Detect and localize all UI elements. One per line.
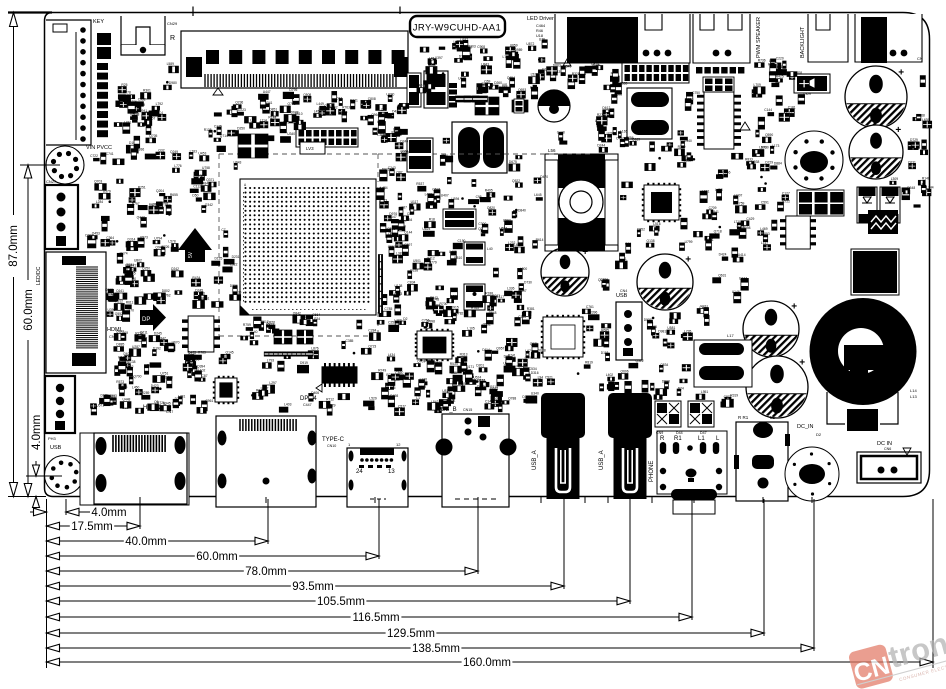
svg-text:R614: R614 (536, 238, 544, 242)
svg-text:L951: L951 (701, 390, 709, 394)
svg-text:L665: L665 (684, 159, 692, 163)
svg-text:R713: R713 (118, 98, 126, 102)
svg-text:L601: L601 (702, 189, 710, 193)
svg-text:CN9: CN9 (656, 431, 663, 435)
svg-text:C300: C300 (478, 222, 486, 226)
svg-text:Q494: Q494 (377, 120, 385, 124)
arrow DP right (140, 304, 166, 331)
svg-text:U799: U799 (685, 240, 693, 244)
svg-text:U698: U698 (614, 92, 622, 96)
svg-text:Q552: Q552 (115, 312, 123, 316)
IC U16 soic16 (697, 92, 741, 149)
IC U12 soic8 (780, 216, 816, 249)
svg-text:Q653: Q653 (518, 88, 526, 92)
svg-text:Q66: Q66 (364, 100, 370, 104)
svg-text:U146: U146 (732, 290, 740, 294)
capacitor E12 (849, 125, 903, 185)
svg-text:D118: D118 (601, 351, 609, 355)
svg-text:R548: R548 (489, 311, 497, 315)
svg-text:Q961: Q961 (400, 149, 408, 153)
svg-text:D140: D140 (250, 330, 258, 334)
connector CN30 backlight (855, 14, 923, 63)
svg-text:L13: L13 (910, 394, 917, 399)
svg-text:R611: R611 (126, 301, 134, 305)
transformer T1 (407, 71, 524, 113)
svg-text:Q138: Q138 (647, 239, 655, 243)
svg-text:L450: L450 (132, 385, 140, 389)
svg-text:Q353: Q353 (619, 81, 627, 85)
component cluster bga bottom (241, 312, 381, 349)
svg-text:C664: C664 (312, 313, 320, 317)
svg-text:C447: C447 (303, 403, 312, 407)
svg-text:U397: U397 (435, 56, 443, 60)
svg-text:D2: D2 (816, 432, 822, 437)
IC U14 tssop (213, 376, 239, 404)
connector DC IN (857, 441, 921, 483)
via dots (109, 58, 767, 396)
component D4850 (187, 60, 201, 75)
svg-text:L645: L645 (534, 193, 542, 197)
component cluster top left inner (116, 62, 179, 134)
svg-text:L1: L1 (770, 415, 776, 420)
svg-text:R384: R384 (530, 86, 538, 90)
svg-text:Q447: Q447 (137, 216, 145, 220)
svg-text:D840: D840 (518, 208, 526, 212)
svg-text:C641: C641 (116, 289, 124, 293)
svg-text:USB: USB (616, 293, 628, 299)
svg-text:C429: C429 (746, 217, 754, 221)
svg-text:R712: R712 (326, 397, 334, 401)
svg-text:R799: R799 (678, 145, 686, 149)
svg-text:D945: D945 (163, 402, 171, 406)
svg-text:+: + (895, 125, 901, 136)
svg-text:Q534: Q534 (432, 188, 440, 192)
svg-text:Q250: Q250 (142, 266, 150, 270)
svg-text:D980: D980 (169, 81, 177, 85)
svg-text:D921: D921 (424, 359, 432, 363)
capacitor TC4 (746, 356, 808, 425)
connector USB_B (436, 407, 517, 507)
svg-text:U592: U592 (503, 219, 511, 223)
svg-text:Q789: Q789 (137, 103, 145, 107)
svg-text:D50: D50 (192, 193, 198, 197)
svg-text:U758: U758 (202, 166, 210, 170)
inductor L10 (443, 209, 476, 229)
component cluster mid-left of BGA (156, 146, 242, 309)
svg-text:Q964: Q964 (371, 113, 379, 117)
inductor L17 (694, 333, 752, 387)
svg-text:U730: U730 (386, 92, 394, 96)
connector CN5 KEY (46, 19, 104, 145)
component cluster right edge (890, 113, 934, 199)
svg-text:L309: L309 (891, 177, 899, 181)
svg-text:D884: D884 (774, 162, 782, 166)
dimension extension lines (28, 476, 933, 668)
label BACKLIGHT (800, 26, 806, 58)
component cluster right of BGA (376, 149, 548, 336)
svg-text:U594: U594 (452, 197, 460, 201)
svg-text:Q718: Q718 (714, 229, 722, 233)
svg-text:D852: D852 (637, 228, 645, 232)
svg-text:L13: L13 (920, 183, 926, 187)
svg-text:C7: C7 (221, 228, 225, 232)
svg-text:138.5mm: 138.5mm (412, 643, 460, 655)
svg-text:D245: D245 (154, 332, 162, 336)
svg-text:L434: L434 (380, 186, 388, 190)
svg-text:C190: C190 (458, 239, 466, 243)
svg-text:C750: C750 (692, 91, 700, 95)
svg-text:U659: U659 (510, 44, 518, 48)
svg-text:KEY: KEY (93, 19, 104, 25)
svg-text:L40: L40 (487, 247, 493, 251)
label USB mid (0, 0, 1, 1)
svg-text:Q32: Q32 (158, 149, 164, 153)
svg-text:D730: D730 (524, 281, 532, 285)
svg-text:L793: L793 (267, 359, 275, 363)
svg-text:C521: C521 (545, 376, 553, 380)
component cluster left mid (85, 179, 170, 317)
svg-text:C220: C220 (776, 56, 784, 60)
svg-text:C385: C385 (346, 339, 354, 343)
svg-text:C243: C243 (388, 166, 396, 170)
bottom dimension lines (30, 507, 933, 669)
svg-text:R321: R321 (350, 99, 358, 103)
svg-text:C364: C364 (106, 236, 114, 240)
svg-text:D527: D527 (644, 318, 652, 322)
svg-text:DC_IN: DC_IN (797, 424, 814, 430)
svg-text:L17: L17 (727, 333, 734, 338)
svg-text:LED/DC: LED/DC (36, 266, 42, 285)
svg-text:C534: C534 (529, 367, 537, 371)
svg-text:R783: R783 (198, 351, 206, 355)
svg-text:R: R (660, 436, 665, 442)
svg-text:C766: C766 (422, 318, 430, 322)
svg-text:R188: R188 (485, 292, 493, 296)
svg-text:L14: L14 (910, 388, 917, 393)
label LED Driver (527, 16, 554, 38)
svg-text:13: 13 (388, 469, 395, 475)
svg-text:L529: L529 (369, 397, 377, 401)
svg-text:R: R (170, 35, 175, 42)
svg-text:Q169: Q169 (632, 137, 640, 141)
svg-text:C938: C938 (802, 77, 810, 81)
svg-text:D260: D260 (494, 81, 502, 85)
svg-text:PWM SPEAKER: PWM SPEAKER (756, 17, 762, 58)
svg-text:Q158: Q158 (410, 269, 418, 273)
svg-text:C181: C181 (788, 106, 796, 110)
svg-text:U625: U625 (458, 77, 466, 81)
svg-text:L639: L639 (922, 118, 930, 122)
svg-text:Q633: Q633 (434, 361, 442, 365)
svg-text:D548: D548 (907, 186, 915, 190)
inductor L4b (627, 88, 672, 146)
svg-text:R726: R726 (162, 245, 170, 249)
svg-text:C550: C550 (388, 245, 396, 249)
svg-text:L90: L90 (451, 371, 457, 375)
svg-text:Q241: Q241 (598, 278, 606, 282)
svg-text:U407: U407 (441, 194, 449, 198)
capacitor row C4x (378, 255, 382, 314)
svg-text:105.5mm: 105.5mm (317, 596, 365, 608)
svg-text:L589: L589 (167, 62, 175, 66)
svg-text:D851: D851 (269, 107, 277, 111)
svg-text:C464: C464 (536, 24, 545, 28)
svg-text:D981: D981 (658, 330, 666, 334)
svg-text:R795: R795 (486, 193, 494, 197)
svg-text:C761: C761 (586, 305, 594, 309)
svg-text:12: 12 (396, 442, 401, 447)
svg-text:L782: L782 (503, 55, 511, 59)
dimension 87.0mm (5, 13, 22, 497)
component cluster right mid (615, 145, 790, 269)
svg-text:L984: L984 (125, 263, 133, 267)
component cluster bottom row2 (386, 356, 539, 412)
svg-text:Q971: Q971 (530, 342, 538, 346)
svg-text:D233: D233 (493, 397, 501, 401)
component cluster top far right (911, 76, 928, 208)
svg-text:U48: U48 (433, 297, 439, 301)
svg-text:L463: L463 (425, 193, 433, 197)
svg-text:L735: L735 (684, 329, 692, 333)
svg-text:C577: C577 (398, 405, 406, 409)
svg-text:L114: L114 (260, 118, 267, 122)
svg-text:L940: L940 (685, 139, 693, 143)
svg-text:L336: L336 (507, 287, 515, 291)
svg-text:JRY-W9CUHD-AA1: JRY-W9CUHD-AA1 (413, 23, 501, 34)
svg-text:78.0mm: 78.0mm (245, 566, 287, 578)
svg-text:C95: C95 (476, 195, 482, 199)
svg-text:U29: U29 (607, 131, 613, 135)
svg-text:R434: R434 (192, 276, 200, 280)
svg-text:C138: C138 (557, 130, 565, 134)
svg-text:D606: D606 (499, 86, 507, 90)
svg-text:U414: U414 (738, 253, 746, 257)
svg-text:Q788: Q788 (508, 397, 516, 401)
svg-text:+: + (898, 67, 904, 78)
svg-text:L324: L324 (699, 306, 707, 310)
svg-text:C175: C175 (214, 125, 222, 129)
svg-text:Q782: Q782 (455, 311, 463, 315)
svg-text:R759: R759 (243, 323, 251, 327)
svg-text:C569: C569 (120, 331, 128, 335)
svg-text:L232: L232 (508, 241, 516, 245)
svg-text:C709: C709 (709, 206, 717, 210)
svg-text:DP: DP (142, 317, 150, 323)
svg-text:D406: D406 (311, 391, 319, 395)
svg-text:Q709: Q709 (417, 360, 425, 364)
svg-text:L434: L434 (388, 353, 396, 357)
svg-text:D240: D240 (400, 139, 408, 143)
audio jack J2 donut (810, 298, 918, 431)
svg-text:U485: U485 (449, 250, 457, 254)
svg-text:U571: U571 (96, 404, 104, 408)
svg-text:Q957: Q957 (496, 347, 504, 351)
svg-text:Q312: Q312 (636, 359, 644, 363)
connector CN1 LVDS (181, 31, 408, 95)
IC U11 shield (851, 249, 899, 295)
component cluster under speaker conn (568, 62, 618, 92)
svg-text:R573: R573 (116, 380, 124, 384)
svg-text:L117: L117 (761, 241, 768, 245)
svg-text:Q147: Q147 (389, 215, 397, 219)
svg-text:C17: C17 (786, 111, 792, 115)
svg-text:Q700: Q700 (133, 375, 141, 379)
svg-text:5V: 5V (188, 251, 194, 258)
svg-text:U448: U448 (123, 398, 131, 402)
connector CN8 LED/DC (36, 252, 122, 373)
svg-text:L138: L138 (420, 378, 428, 382)
inductor L40 (464, 242, 493, 265)
svg-text:U872: U872 (526, 42, 534, 46)
svg-text:C69: C69 (484, 79, 490, 83)
svg-text:L403: L403 (284, 403, 292, 407)
svg-text:U334: U334 (312, 317, 320, 321)
svg-text:L221: L221 (706, 238, 714, 242)
svg-text:D134: D134 (739, 277, 747, 281)
svg-text:D423: D423 (151, 384, 159, 388)
svg-text:R495: R495 (485, 189, 493, 193)
IC U20 (407, 138, 433, 172)
connector CN4 backlight-left (656, 14, 848, 130)
svg-text:CN6: CN6 (884, 447, 891, 451)
dashed SoC region (219, 154, 592, 336)
svg-text:D425: D425 (464, 369, 472, 373)
svg-text:Q994: Q994 (525, 356, 533, 360)
svg-text:D125: D125 (215, 257, 223, 261)
svg-text:L491: L491 (127, 268, 135, 272)
svg-text:CN27: CN27 (46, 179, 57, 184)
svg-text:D114: D114 (482, 348, 490, 352)
svg-text:R425: R425 (776, 75, 784, 79)
svg-text:L987: L987 (400, 206, 408, 210)
svg-text:R46: R46 (536, 29, 543, 33)
svg-text:U157: U157 (261, 386, 269, 390)
svg-text:D802: D802 (162, 289, 170, 293)
connector CN3 speaker-left (555, 14, 690, 66)
svg-text:L778: L778 (600, 122, 608, 126)
svg-text:L1: L1 (698, 436, 705, 442)
component cluster mid low2 (600, 380, 663, 399)
svg-text:U287: U287 (132, 345, 140, 349)
inductor L13 chevrons (868, 210, 898, 234)
IC U17 qfn (415, 329, 454, 361)
svg-text:C144: C144 (764, 108, 772, 112)
connector SPK R/L (734, 415, 790, 503)
svg-text:C4: C4 (159, 111, 163, 115)
svg-text:U187: U187 (460, 38, 468, 42)
svg-text:C284: C284 (368, 329, 376, 333)
svg-text:Q842: Q842 (293, 312, 301, 316)
svg-text:C722: C722 (90, 154, 98, 158)
svg-text:D314: D314 (128, 237, 136, 241)
svg-text:R882: R882 (304, 316, 312, 320)
svg-text:R144: R144 (268, 115, 276, 119)
svg-text:D883: D883 (553, 63, 561, 67)
svg-text:D736: D736 (230, 284, 238, 288)
svg-text:L578: L578 (168, 240, 176, 244)
svg-text:L105: L105 (467, 326, 475, 330)
svg-text:D675: D675 (509, 160, 517, 164)
svg-text:L900: L900 (520, 267, 528, 271)
svg-text:R943: R943 (490, 387, 498, 391)
svg-text:L465: L465 (319, 107, 327, 111)
header USB CN4 (616, 289, 642, 360)
svg-text:R52: R52 (165, 203, 171, 207)
connector VIN PVCC (46, 145, 112, 184)
svg-text:CN15: CN15 (463, 408, 472, 412)
svg-text:R819: R819 (585, 360, 593, 364)
svg-text:D44: D44 (676, 431, 683, 435)
svg-text:Q342: Q342 (205, 203, 213, 207)
svg-text:CN4: CN4 (620, 289, 627, 293)
svg-text:L929: L929 (804, 92, 812, 96)
svg-text:D628: D628 (538, 348, 546, 352)
svg-text:C66: C66 (102, 219, 108, 223)
svg-text:Q144: Q144 (404, 231, 412, 235)
svg-text:C762: C762 (163, 293, 171, 297)
svg-text:U697: U697 (499, 227, 507, 231)
svg-text:C741: C741 (106, 152, 114, 156)
svg-text:R537: R537 (416, 182, 424, 186)
svg-text:U447: U447 (263, 90, 271, 94)
component cluster above connectors (219, 338, 546, 415)
svg-text:R289: R289 (142, 391, 150, 395)
connector USB round (45, 456, 84, 495)
buzzer B1 (538, 90, 570, 122)
svg-text:D38: D38 (504, 354, 510, 358)
svg-text:R736: R736 (758, 59, 766, 63)
svg-text:D475: D475 (188, 350, 196, 354)
component cluster top mid (414, 37, 560, 99)
svg-text:D638: D638 (291, 111, 299, 115)
connector TYPE-C (322, 437, 408, 507)
svg-text:D24: D24 (678, 386, 684, 390)
svg-text:Q249: Q249 (170, 150, 178, 154)
svg-text:17.5mm: 17.5mm (71, 521, 113, 533)
svg-text:L15: L15 (250, 119, 256, 123)
svg-text:Q96: Q96 (625, 242, 631, 246)
title block JRY-W9CUHD-AA1 (400, 7, 505, 38)
component cluster left bottom (91, 308, 214, 415)
svg-text:60.0mm: 60.0mm (196, 551, 238, 563)
watermark CNtronic (847, 614, 946, 689)
svg-text:L990: L990 (759, 146, 767, 150)
pad array P6 (797, 190, 844, 216)
svg-text:U407: U407 (735, 194, 743, 198)
svg-text:U117: U117 (411, 200, 419, 204)
svg-text:L165: L165 (620, 129, 628, 133)
svg-text:Q508: Q508 (303, 93, 311, 97)
svg-text:U76: U76 (539, 37, 545, 41)
label PWM SPEAKER (756, 17, 762, 58)
svg-text:L792: L792 (156, 102, 164, 106)
svg-text:R117: R117 (509, 342, 517, 346)
svg-text:L709: L709 (754, 83, 762, 87)
connector CN2 speaker-right (693, 14, 750, 124)
svg-text:R135: R135 (204, 128, 212, 132)
svg-text:U938: U938 (751, 160, 759, 164)
svg-text:D728: D728 (165, 376, 173, 380)
svg-text:Q371: Q371 (206, 178, 214, 182)
svg-text:D885: D885 (116, 343, 124, 347)
svg-text:D919: D919 (300, 361, 308, 365)
svg-text:Q834: Q834 (660, 363, 668, 367)
diodes D44 D47 (655, 401, 714, 435)
svg-text:L783: L783 (190, 150, 198, 154)
svg-text:Q81: Q81 (199, 291, 205, 295)
svg-text:R685: R685 (601, 328, 609, 332)
svg-text:R749: R749 (378, 369, 386, 373)
